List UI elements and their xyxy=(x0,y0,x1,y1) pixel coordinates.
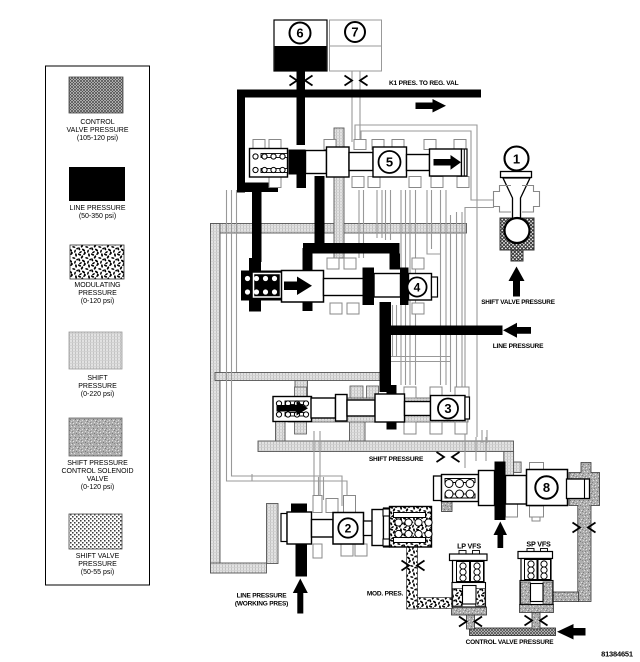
svg-text:2: 2 xyxy=(345,521,352,535)
svg-text:SHIFT: SHIFT xyxy=(87,375,108,382)
svg-text:CONTROL VALVE PRESSURE: CONTROL VALVE PRESSURE xyxy=(466,639,555,646)
svg-text:(0-120 psi): (0-120 psi) xyxy=(81,298,114,305)
svg-text:81384651: 81384651 xyxy=(601,650,633,659)
svg-text:8: 8 xyxy=(543,480,550,495)
svg-text:1: 1 xyxy=(513,152,520,167)
svg-text:6: 6 xyxy=(296,26,303,41)
svg-text:(0-120 psi): (0-120 psi) xyxy=(81,484,114,491)
svg-text:PRESSURE: PRESSURE xyxy=(78,290,117,297)
svg-text:LINE PRESSURE: LINE PRESSURE xyxy=(69,205,125,212)
svg-text:MOD. PRES.: MOD. PRES. xyxy=(367,591,404,598)
svg-text:(0-220 psi): (0-220 psi) xyxy=(81,391,114,398)
svg-text:VALVE: VALVE xyxy=(87,476,109,483)
svg-text:7: 7 xyxy=(351,25,358,40)
svg-text:5: 5 xyxy=(386,155,393,170)
svg-text:LINE PRESSURE: LINE PRESSURE xyxy=(237,593,288,600)
svg-text:(WORKING PRES): (WORKING PRES) xyxy=(235,601,288,608)
svg-text:(105-120 psi): (105-120 psi) xyxy=(77,135,118,142)
svg-text:SHIFT PRESSURE: SHIFT PRESSURE xyxy=(67,460,128,467)
svg-text:CONTROL: CONTROL xyxy=(80,119,114,126)
svg-text:K1 PRES. TO REG. VAL: K1 PRES. TO REG. VAL xyxy=(389,80,459,87)
svg-text:4: 4 xyxy=(414,280,421,294)
svg-text:CONTROL SOLENOID: CONTROL SOLENOID xyxy=(61,468,133,475)
svg-text:PRESSURE: PRESSURE xyxy=(78,383,117,390)
svg-text:SHIFT VALVE: SHIFT VALVE xyxy=(76,553,120,560)
svg-text:(50-55 psi): (50-55 psi) xyxy=(81,569,114,576)
svg-text:LINE PRESSURE: LINE PRESSURE xyxy=(493,343,544,350)
svg-text:SP VFS: SP VFS xyxy=(526,540,551,549)
svg-text:3: 3 xyxy=(444,401,451,416)
svg-text:MODULATING: MODULATING xyxy=(74,282,120,289)
svg-text:SHIFT VALVE PRESSURE: SHIFT VALVE PRESSURE xyxy=(481,299,555,306)
svg-text:PRESSURE: PRESSURE xyxy=(78,561,117,568)
svg-text:VALVE PRESSURE: VALVE PRESSURE xyxy=(67,127,129,134)
svg-text:(50-350 psi): (50-350 psi) xyxy=(79,213,116,220)
svg-text:LP VFS: LP VFS xyxy=(457,542,481,551)
svg-text:SHIFT PRESSURE: SHIFT PRESSURE xyxy=(369,456,424,463)
